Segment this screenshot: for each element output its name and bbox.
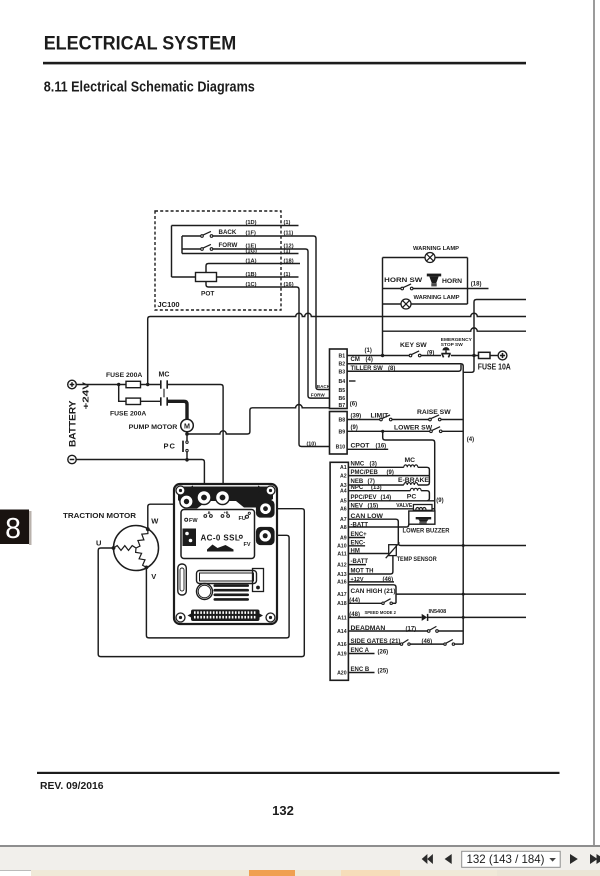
wire B9 LOWER SW <box>347 425 463 433</box>
wire A2 PMC/PEB <box>348 475 429 477</box>
corner decor triangles <box>187 486 194 493</box>
svg-text:WARNING LAMP: WARNING LAMP <box>414 295 460 301</box>
bottom connector <box>191 610 260 622</box>
svg-text:A11: A11 <box>337 615 346 621</box>
A pin labels <box>337 465 347 676</box>
wire BACK/FORW common <box>181 236 183 254</box>
svg-text:ELECTRICAL SYSTEM: ELECTRICAL SYSTEM <box>44 33 237 54</box>
svg-text:8.11 Electrical Schematic Diag: 8.11 Electrical Schematic Diagrams <box>44 80 255 96</box>
JC100 pin labels <box>246 220 294 288</box>
svg-text:PC: PC <box>407 494 417 501</box>
svg-text:A2: A2 <box>340 474 347 480</box>
wire motor V loop to controller FV <box>146 535 289 638</box>
svg-text:(1): (1) <box>284 272 291 278</box>
svg-text:(26): (26) <box>378 649 389 655</box>
potentiometer POT <box>196 273 217 282</box>
nav next page button <box>570 854 578 864</box>
svg-text:A10: A10 <box>337 544 347 550</box>
right terminal block FU <box>257 501 275 518</box>
svg-text:A11: A11 <box>337 551 346 557</box>
wire horn row <box>383 288 402 290</box>
svg-text:A8: A8 <box>340 525 347 531</box>
node fuse junction <box>146 383 149 386</box>
logo block <box>183 529 197 547</box>
svg-text:CPOT: CPOT <box>351 442 371 449</box>
svg-text:(18): (18) <box>284 258 294 264</box>
header rule <box>43 62 526 65</box>
switches SIDE GATES net 21/46 <box>348 638 463 645</box>
wire B10 CPOT stub <box>347 448 388 450</box>
svg-text:(14): (14) <box>381 495 392 501</box>
svg-text:JC100: JC100 <box>158 300 180 309</box>
horn HORN <box>427 274 462 287</box>
viewer bottom border <box>0 845 600 847</box>
svg-text:MC: MC <box>405 457 416 464</box>
svg-text:TEMP SENSOR: TEMP SENSOR <box>397 557 438 563</box>
svg-text:-B: -B <box>207 511 211 515</box>
coil E-BRAKE (A3) <box>348 476 429 486</box>
svg-text:LOWER SW: LOWER SW <box>394 425 433 432</box>
svg-text:(25): (25) <box>378 668 389 674</box>
svg-text:W: W <box>151 517 159 526</box>
battery negative terminal <box>68 455 76 463</box>
temp sensor <box>386 543 438 564</box>
status strip <box>0 870 600 876</box>
switch KEY SW <box>409 354 412 357</box>
node PC to battery- <box>185 458 189 462</box>
wire warning box top <box>383 257 468 259</box>
wire A17 CAN HIGH box <box>348 585 526 604</box>
svg-text:POT: POT <box>201 291 214 298</box>
svg-text:A19: A19 <box>337 651 347 657</box>
B pin labels <box>336 353 346 450</box>
svg-text:(1A): (1A) <box>246 258 257 264</box>
wire row 1D <box>172 225 299 227</box>
terminal circled plus <box>498 351 507 360</box>
pump motor M <box>129 419 194 432</box>
svg-text:A12: A12 <box>337 562 347 568</box>
coil PC (A4-A5) <box>348 485 429 501</box>
node pump motor bottom <box>186 432 188 434</box>
buzzer LOWER BUZZER <box>403 511 450 535</box>
svg-text:SPEED MODE 2: SPEED MODE 2 <box>365 610 397 615</box>
svg-text:NMC: NMC <box>351 461 365 467</box>
svg-text:WARNING LAMP: WARNING LAMP <box>413 246 459 252</box>
svg-text:FV: FV <box>244 542 251 548</box>
wire key to emergency <box>421 355 441 357</box>
switch BACK <box>182 229 237 238</box>
svg-text:A1: A1 <box>340 465 347 471</box>
wire net to right edge (y=331) <box>383 328 527 331</box>
diode IN5408 row net 48 <box>348 609 526 621</box>
wire net 16 (1C) to B10 <box>206 282 330 447</box>
svg-text:IN5408: IN5408 <box>429 609 447 615</box>
wire left bus inside JC100 <box>171 226 173 278</box>
svg-text:A13: A13 <box>337 572 347 578</box>
svg-text:HORN SW: HORN SW <box>384 277 423 284</box>
coil MC (A1-A2) <box>348 457 429 476</box>
svg-text:PC: PC <box>164 442 176 451</box>
wire MC out to controller +B <box>167 385 223 487</box>
nav first page button <box>422 854 433 864</box>
wire stub net 18 <box>468 288 489 290</box>
fuse FUSE 200A (lower) <box>126 398 141 404</box>
footer rule <box>37 772 560 774</box>
svg-text:A17: A17 <box>337 592 347 598</box>
svg-text:B8: B8 <box>339 418 346 424</box>
right terminal block FV <box>257 528 275 545</box>
contactor MC main contacts <box>159 372 170 406</box>
svg-text:(46): (46) <box>422 639 433 645</box>
svg-text:FORW: FORW <box>219 242 238 249</box>
svg-text:FUSE 10A: FUSE 10A <box>478 363 511 372</box>
signature mark <box>207 545 234 552</box>
svg-text:TILLER SW: TILLER SW <box>351 366 384 372</box>
svg-text:STOP SW: STOP SW <box>441 342 463 348</box>
svg-text:BATTERY: BATTERY <box>67 400 78 447</box>
svg-text:BACK: BACK <box>219 229 237 236</box>
contact PC <box>164 434 189 460</box>
svg-text:BACK: BACK <box>317 384 331 389</box>
svg-text:(8): (8) <box>388 366 395 372</box>
svg-text:HORN: HORN <box>442 278 462 285</box>
svg-text:(1F): (1F) <box>246 231 257 237</box>
svg-text:(18): (18) <box>471 282 482 288</box>
wire net 12 (FORW) to B6 <box>213 249 330 398</box>
switch A14 DEADMAN net 17 <box>348 625 463 633</box>
controller top terminal band <box>178 487 273 509</box>
display window <box>197 571 257 584</box>
svg-text:(16): (16) <box>284 282 294 288</box>
wire branch to lower fuse <box>119 385 126 402</box>
svg-text:A18: A18 <box>337 601 347 607</box>
wire A7 CAN LOW to right edge <box>348 513 526 546</box>
svg-text:CM: CM <box>351 357 360 363</box>
svg-text:(1): (1) <box>284 220 291 226</box>
svg-text:B2: B2 <box>339 362 346 368</box>
wire motor W to controller FW <box>148 504 175 529</box>
svg-text:FU: FU <box>239 516 246 522</box>
svg-text:PPC/PEV: PPC/PEV <box>351 495 377 501</box>
svg-text:B4: B4 <box>339 379 346 385</box>
vent slots <box>214 584 250 600</box>
wire A8 -BATT to buzzer <box>348 522 408 528</box>
svg-text:A6: A6 <box>340 507 347 513</box>
nav last page button <box>590 854 600 864</box>
svg-text:B7: B7 <box>339 403 346 409</box>
svg-text:B1: B1 <box>339 353 346 359</box>
wire B1 to key switch <box>347 355 409 357</box>
wire emergency to fuse <box>451 355 478 357</box>
svg-text:AC-0 SSL: AC-0 SSL <box>201 534 241 543</box>
toolbar background <box>0 847 600 870</box>
switch HORN SW <box>401 287 404 290</box>
svg-text:(1C): (1C) <box>246 282 257 288</box>
wire +24V bus (y=316) <box>148 313 526 384</box>
svg-text:M: M <box>184 421 190 430</box>
stub B4 <box>349 380 356 382</box>
nav previous page button <box>445 854 452 864</box>
wire (thick) MC to pump motor <box>167 401 187 419</box>
speaker circle <box>197 584 213 600</box>
left slot <box>178 564 187 595</box>
svg-text:(1B): (1B) <box>246 272 257 278</box>
wire pump junction to B7 (net 6) <box>187 404 330 434</box>
battery positive terminal <box>68 380 77 389</box>
svg-text:+24V: +24V <box>82 381 91 409</box>
svg-text:A16: A16 <box>337 579 347 585</box>
svg-text:RAISE SW: RAISE SW <box>417 409 451 416</box>
svg-text:LOWER BUZZER: LOWER BUZZER <box>403 528 450 535</box>
svg-text:FORW: FORW <box>311 393 326 398</box>
svg-text:CAN HIGH (21): CAN HIGH (21) <box>351 588 396 595</box>
svg-text:(6): (6) <box>350 402 357 408</box>
svg-text:(16): (16) <box>376 443 387 449</box>
svg-text:(1D): (1D) <box>246 220 257 226</box>
wire row 1G <box>182 253 299 255</box>
svg-text:TRACTION MOTOR: TRACTION MOTOR <box>63 513 136 520</box>
wire motor U loop to controller FU <box>98 509 304 657</box>
emergency stop switch <box>441 337 473 357</box>
svg-text:REV. 09/2016: REV. 09/2016 <box>40 781 104 792</box>
svg-text:B3: B3 <box>339 369 346 375</box>
wire A5 PPC/PEV <box>348 500 434 502</box>
svg-text:(1G): (1G) <box>246 248 257 254</box>
viewer scrollbar line <box>593 0 595 846</box>
wire B3 TILLER SW net 8 <box>347 365 461 372</box>
svg-text:FUSE 200A: FUSE 200A <box>110 411 146 418</box>
svg-text:B9: B9 <box>339 429 346 435</box>
wire battery+ to fuse <box>76 384 126 386</box>
svg-text:(9): (9) <box>351 425 358 431</box>
node warning box to key wire <box>381 354 384 357</box>
svg-text:(4): (4) <box>467 437 474 443</box>
connector box JC100 (dashed) <box>155 211 281 310</box>
page title <box>44 33 237 54</box>
connector B block (B1-B7) <box>330 349 348 409</box>
svg-text:(4): (4) <box>366 357 373 363</box>
connector A block <box>330 462 348 680</box>
wire LOWER branch to valve rail net 9 <box>383 431 435 511</box>
svg-text:(1): (1) <box>365 348 372 354</box>
svg-text:132: 132 <box>272 803 294 818</box>
wire warning box left leg <box>382 258 384 356</box>
fuse FUSE 200A (upper) <box>126 381 141 387</box>
svg-text:EMERGENCY: EMERGENCY <box>441 337 473 343</box>
svg-text:(11): (11) <box>284 231 294 237</box>
junction dots on net 4 vertical <box>462 544 465 547</box>
svg-text:+B: +B <box>224 511 229 515</box>
svg-text:(3): (3) <box>370 461 377 467</box>
chapter tab 8 <box>0 510 32 546</box>
svg-text:MC: MC <box>159 372 170 379</box>
svg-text:(1): (1) <box>284 248 291 254</box>
svg-text:A16: A16 <box>337 642 347 648</box>
controller AC-0 SSL body <box>174 484 277 624</box>
wire warning box bottom <box>383 303 468 305</box>
terminal B- <box>197 491 211 505</box>
connector B block (B8-B10) <box>330 412 348 455</box>
switch A18 net 44 <box>348 598 396 605</box>
fuse FUSE 10A <box>479 352 491 358</box>
svg-text:A20: A20 <box>337 670 347 676</box>
svg-text:(39): (39) <box>351 414 362 420</box>
wire warning box right leg <box>467 258 469 305</box>
svg-text:KEY SW: KEY SW <box>400 342 427 349</box>
wire net to right edge (y=299) <box>463 300 526 373</box>
traction motor <box>63 513 159 581</box>
svg-text:PUMP MOTOR: PUMP MOTOR <box>129 424 178 431</box>
svg-text:A4: A4 <box>340 489 347 495</box>
svg-text:A9: A9 <box>340 535 347 541</box>
svg-text:A7: A7 <box>340 517 347 523</box>
svg-text:A5: A5 <box>340 499 347 505</box>
wire battery- to controller -B <box>76 460 204 487</box>
wire net 11 (BACK) to B5 <box>213 236 330 390</box>
wire B2 CM net 4 <box>347 364 463 644</box>
svg-text:B10: B10 <box>336 445 346 451</box>
wire B8 LIMIT / RAISE SW <box>347 409 463 421</box>
svg-text:(9): (9) <box>436 498 443 504</box>
svg-text:FW: FW <box>189 518 198 524</box>
wire row 1B <box>172 276 196 278</box>
svg-text:(9): (9) <box>387 470 394 476</box>
svg-text:(17): (17) <box>406 627 417 633</box>
small button box <box>253 569 264 592</box>
wire row 1A (POT wiper) <box>206 264 300 273</box>
controller front panel <box>181 510 255 559</box>
svg-text:(13): (13) <box>371 485 382 491</box>
svg-text:A14: A14 <box>337 629 347 635</box>
page number box <box>462 851 561 867</box>
svg-text:B6: B6 <box>339 396 346 402</box>
corner screws <box>176 486 275 622</box>
svg-text:PMC/PEB: PMC/PEB <box>351 470 379 476</box>
svg-text:NPC: NPC <box>351 485 364 491</box>
terminal FW (top-left) <box>180 495 193 508</box>
svg-text:B5: B5 <box>339 388 346 394</box>
svg-text:FUSE 200A: FUSE 200A <box>106 372 142 379</box>
panel terminals -B +B dots <box>204 511 230 517</box>
svg-text:(10): (10) <box>307 442 317 448</box>
svg-text:8: 8 <box>5 513 21 545</box>
valve (A6) <box>348 503 434 510</box>
svg-text:V: V <box>151 572 156 581</box>
terminal B+ <box>216 491 230 505</box>
switch FORW <box>182 242 237 251</box>
svg-text:U: U <box>96 538 101 547</box>
svg-text:132 (143 / 184): 132 (143 / 184) <box>467 852 545 866</box>
